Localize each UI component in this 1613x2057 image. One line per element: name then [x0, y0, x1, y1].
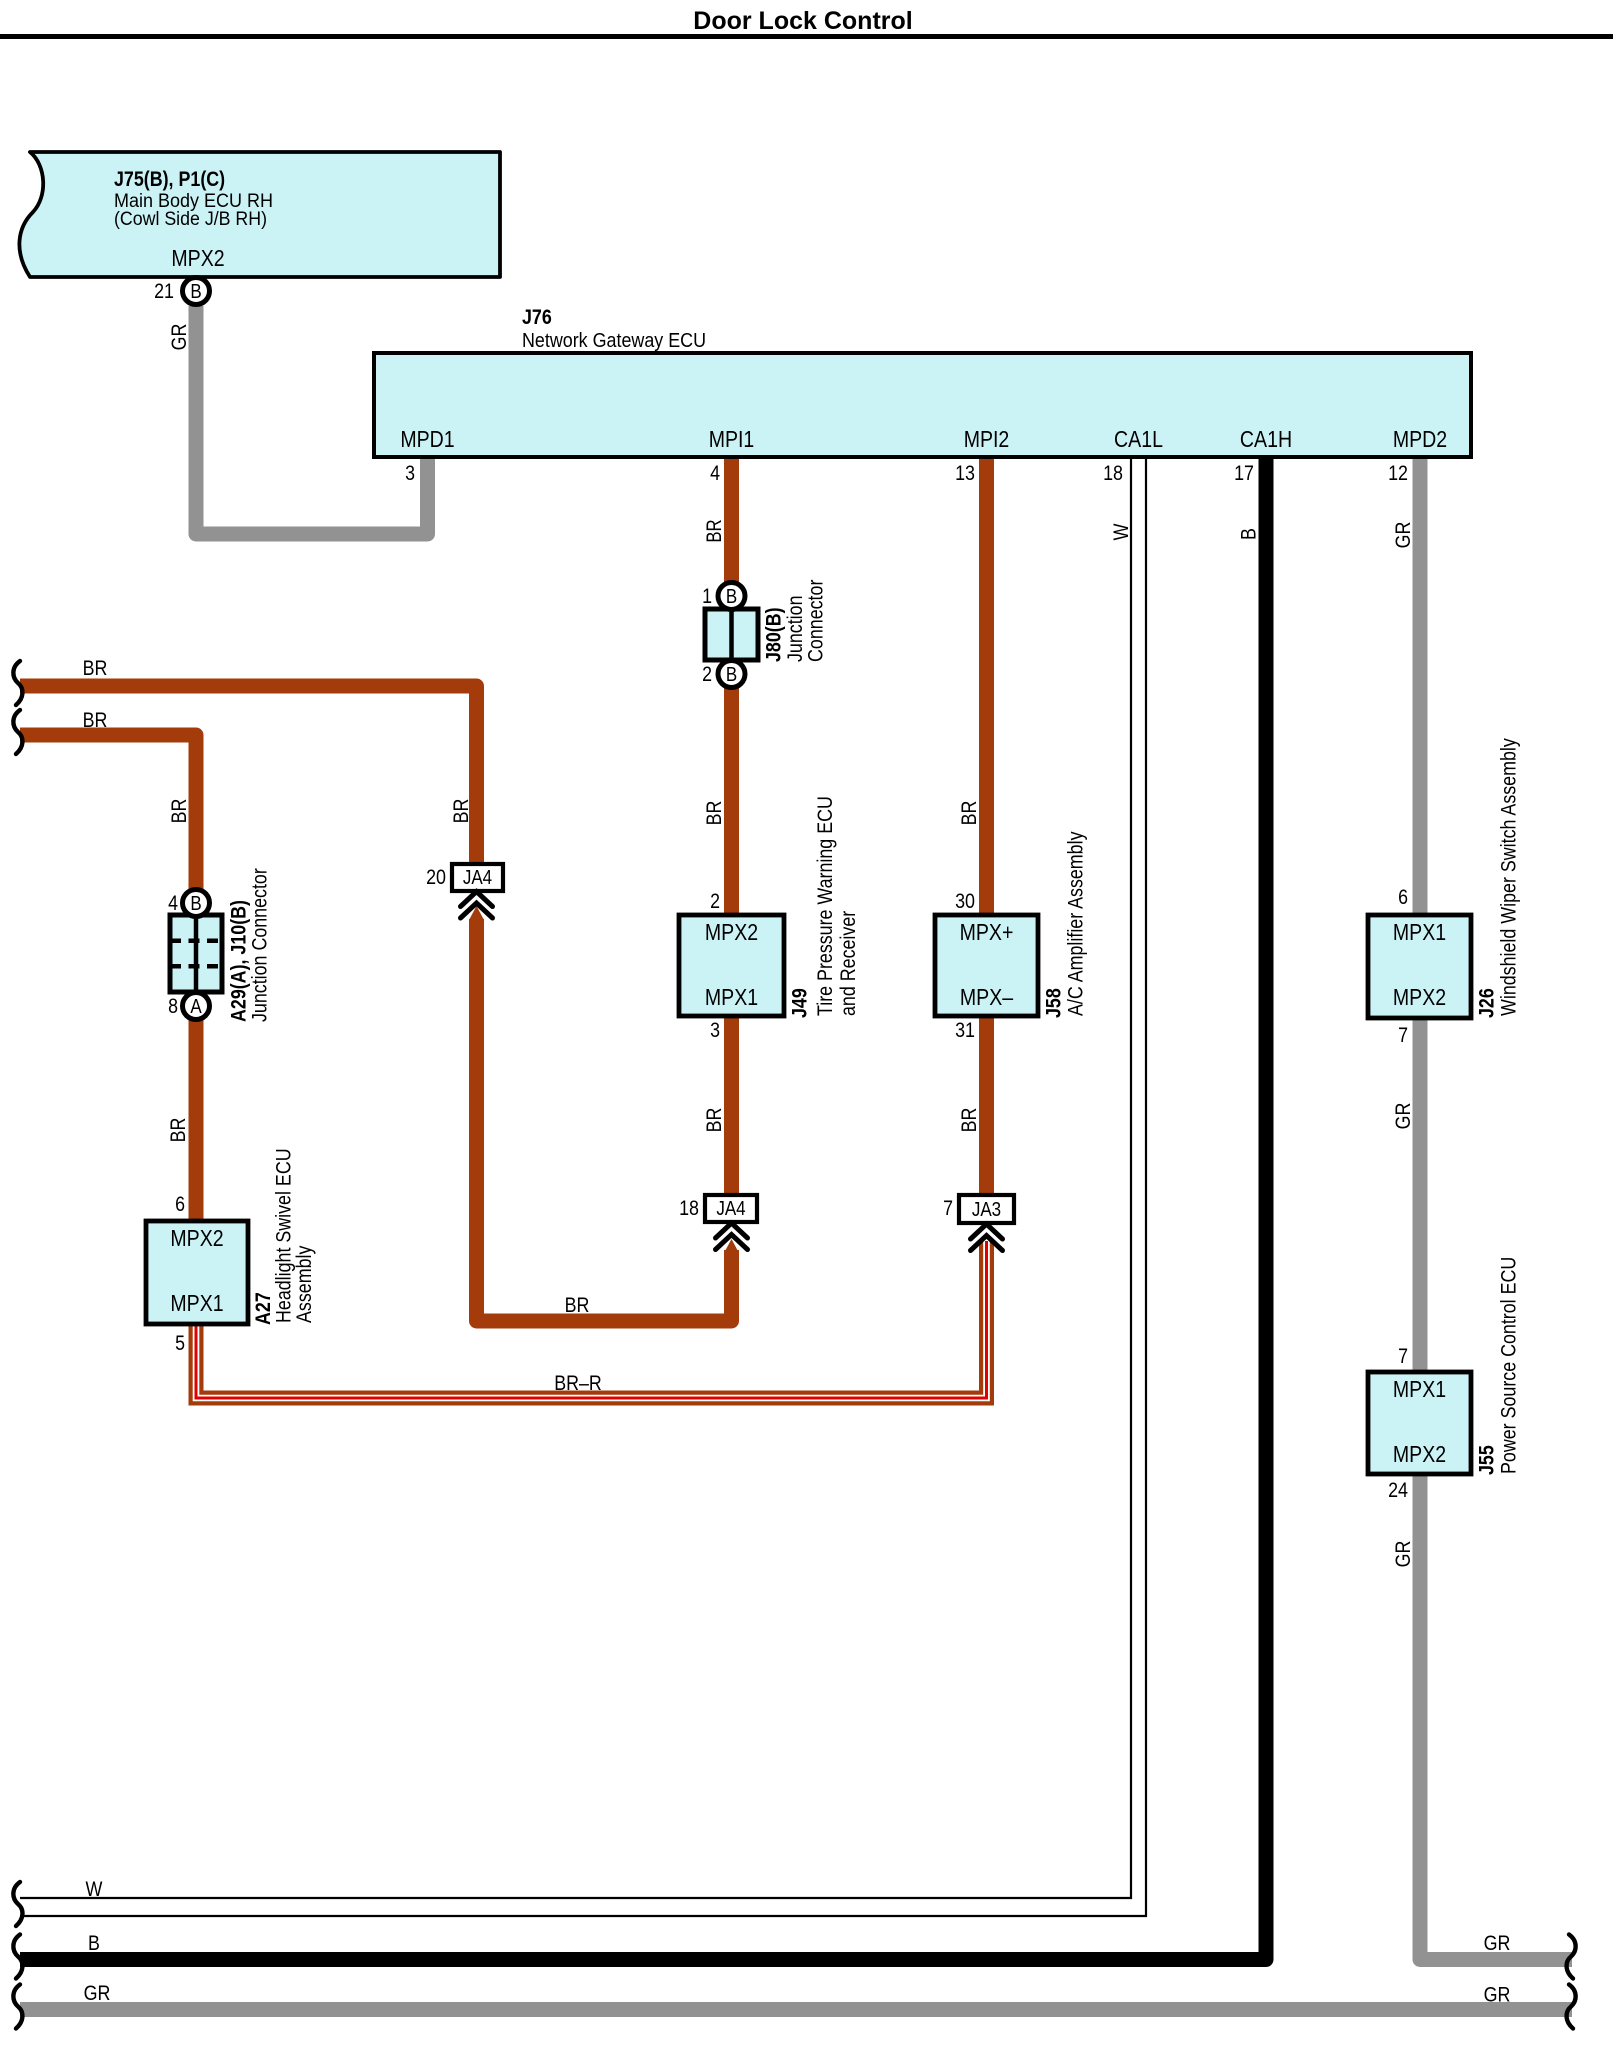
svg-text:A/C Amplifier Assembly: A/C Amplifier Assembly — [1065, 831, 1088, 1016]
connector box J76 Network Gateway ECU — [374, 353, 1471, 457]
svg-text:4: 4 — [710, 462, 720, 485]
svg-text:GR: GR — [168, 324, 191, 351]
title rule — [0, 34, 1613, 39]
wire BR loop JA4-20 down and to JA4-18 — [477, 919, 732, 1321]
svg-text:MPX2: MPX2 — [1393, 984, 1446, 1010]
svg-text:B: B — [726, 664, 737, 686]
wire W CA1L double line — [20, 454, 1131, 1898]
wire BR MPI1 J76 to J80 — [724, 454, 739, 584]
connector box J58 — [935, 915, 1038, 1016]
svg-text:BR: BR — [703, 519, 726, 542]
svg-text:MPD2: MPD2 — [1393, 426, 1447, 452]
pin circle B J80 pin 2 — [718, 661, 745, 688]
wire BR MPI2 J76 to J58 — [979, 454, 994, 917]
svg-text:31: 31 — [955, 1019, 975, 1042]
wire BR from left break to A29 — [20, 735, 196, 891]
svg-text:J58: J58 — [1043, 988, 1066, 1018]
junction connector J80(B) box — [705, 609, 758, 660]
svg-text:3: 3 — [710, 1019, 720, 1042]
svg-text:BR: BR — [565, 1294, 590, 1317]
connector JA4-18 box — [705, 1195, 757, 1222]
svg-text:GR: GR — [1392, 1541, 1415, 1568]
svg-text:2: 2 — [702, 663, 712, 686]
wire BR J58 to JA3-7 — [979, 1014, 994, 1197]
svg-text:A: A — [190, 996, 202, 1018]
connector box J49 — [679, 915, 784, 1016]
svg-text:A29(A), J10(B): A29(A), J10(B) — [228, 900, 251, 1022]
svg-text:BR: BR — [83, 657, 108, 680]
svg-text:JA3: JA3 — [972, 1199, 1001, 1221]
pin circle A A29 pin 8 — [183, 993, 210, 1020]
connector box J75(B) P1(C) Main Body ECU RH — [19, 152, 500, 277]
svg-text:BR: BR — [703, 801, 726, 826]
break symbol W wire — [13, 1882, 22, 1926]
svg-text:12: 12 — [1388, 462, 1408, 485]
svg-text:J55: J55 — [1476, 1445, 1499, 1475]
svg-text:BR: BR — [450, 799, 473, 824]
svg-text:BR: BR — [83, 709, 108, 732]
svg-text:Windshield Wiper Switch Assemb: Windshield Wiper Switch Assembly — [1498, 738, 1521, 1016]
svg-text:MPX+: MPX+ — [960, 919, 1014, 945]
wire BR tip below JA4-18 — [724, 1239, 739, 1253]
svg-text:MPX2: MPX2 — [170, 1225, 223, 1251]
svg-text:8: 8 — [168, 995, 178, 1018]
arrow chevrons below JA3-7 — [971, 1224, 1003, 1239]
pin circle B A29 pin 4 — [183, 890, 210, 917]
break symbol GR wire right upper — [1567, 1935, 1576, 1979]
svg-text:GR: GR — [84, 1982, 111, 2005]
pin circle B J80 pin 1 — [718, 583, 745, 610]
break symbol BR wire 1 — [13, 661, 22, 705]
svg-text:MPX1: MPX1 — [705, 984, 758, 1010]
wire GR J55 to right break — [1420, 1472, 1572, 1960]
svg-text:J49: J49 — [789, 988, 812, 1018]
svg-text:6: 6 — [175, 1193, 185, 1216]
svg-text:B: B — [190, 281, 201, 303]
svg-text:BR: BR — [167, 1118, 190, 1143]
svg-text:2: 2 — [710, 890, 720, 913]
connector box A27 — [146, 1221, 248, 1324]
svg-text:GR: GR — [1484, 1932, 1511, 1955]
wire BR J49 to JA4-18 — [724, 1014, 739, 1197]
svg-text:MPX1: MPX1 — [1393, 919, 1446, 945]
svg-text:24: 24 — [1388, 1479, 1408, 1502]
svg-text:MPX2: MPX2 — [171, 245, 224, 271]
svg-text:GR: GR — [1392, 522, 1415, 549]
svg-text:MPX2: MPX2 — [705, 919, 758, 945]
svg-text:Junction Connector: Junction Connector — [249, 868, 272, 1022]
svg-text:BR: BR — [958, 1108, 981, 1133]
svg-text:Network Gateway ECU: Network Gateway ECU — [522, 330, 706, 352]
svg-text:MPX1: MPX1 — [170, 1290, 223, 1316]
wire BR tip below JA4-20 — [469, 906, 484, 920]
svg-text:B: B — [190, 893, 201, 915]
arrow chevrons below JA4-18 — [716, 1223, 748, 1238]
wire GR J26 to J55 — [1413, 1016, 1428, 1374]
svg-text:BR–R: BR–R — [554, 1372, 602, 1395]
svg-text:J26: J26 — [1476, 988, 1499, 1018]
svg-text:Power Source Control ECU: Power Source Control ECU — [1498, 1257, 1521, 1474]
svg-text:Tire Pressure Warning ECU: Tire Pressure Warning ECU — [814, 796, 837, 1016]
svg-text:MPX1: MPX1 — [1393, 1376, 1446, 1402]
connector JA3-7 box — [959, 1195, 1014, 1223]
svg-text:6: 6 — [1398, 886, 1408, 909]
svg-text:20: 20 — [426, 866, 446, 889]
wire BR J80 to J49 — [724, 686, 739, 917]
svg-text:Connector: Connector — [805, 580, 828, 662]
break symbol GR wire left — [13, 1985, 22, 2029]
wire BR A29 to A27 — [189, 1018, 204, 1223]
svg-text:GR: GR — [1392, 1103, 1415, 1130]
wire BR-R A27 pin5 to JA3-7 — [196, 1241, 987, 1398]
svg-text:MPI1: MPI1 — [709, 426, 755, 452]
junction connector A29(A) J10(B) box — [170, 915, 222, 992]
svg-text:JA4: JA4 — [716, 1198, 745, 1220]
svg-text:MPX2: MPX2 — [1393, 1441, 1446, 1467]
svg-text:BR: BR — [168, 799, 191, 824]
break symbol B wire — [13, 1935, 22, 1979]
svg-text:W: W — [86, 1878, 103, 1901]
connector box J55 — [1368, 1372, 1471, 1474]
svg-text:18: 18 — [679, 1197, 699, 1220]
pin circle B on J75 pin 21 — [183, 278, 210, 305]
svg-text:MPI2: MPI2 — [964, 426, 1010, 452]
svg-text:30: 30 — [955, 890, 975, 913]
svg-text:B: B — [88, 1932, 100, 1955]
svg-text:5: 5 — [175, 1332, 185, 1355]
wire GR J75 pin21 to J76 MPD1 — [196, 306, 428, 534]
connector box J26 — [1368, 915, 1471, 1018]
svg-text:CA1H: CA1H — [1240, 426, 1292, 452]
svg-text:BR: BR — [703, 1108, 726, 1133]
wire B CA1H — [20, 454, 1266, 1960]
svg-text:18: 18 — [1103, 462, 1123, 485]
wire GR MPD2 J76 to J26 — [1413, 454, 1428, 917]
break symbol BR wire 2 — [13, 710, 22, 754]
svg-text:Door Lock Control: Door Lock Control — [693, 7, 912, 35]
svg-text:7: 7 — [1398, 1345, 1408, 1368]
wire GR bottom full width — [20, 2002, 1572, 2017]
svg-text:17: 17 — [1234, 462, 1254, 485]
svg-text:3: 3 — [405, 462, 415, 485]
svg-text:B: B — [726, 586, 737, 608]
svg-text:(Cowl Side J/B RH): (Cowl Side J/B RH) — [114, 209, 267, 230]
break symbol GR wire right lower — [1567, 1985, 1576, 2029]
svg-text:J76: J76 — [522, 306, 552, 329]
svg-text:1: 1 — [702, 585, 712, 608]
svg-text:Assembly: Assembly — [293, 1245, 316, 1323]
svg-text:BR: BR — [958, 801, 981, 826]
wire BR from left break through JA4-20 — [20, 686, 477, 866]
svg-text:7: 7 — [1398, 1024, 1408, 1047]
svg-text:4: 4 — [168, 892, 178, 915]
connector JA4-20 box — [452, 864, 503, 891]
svg-text:13: 13 — [955, 462, 975, 485]
svg-text:MPX–: MPX– — [960, 984, 1013, 1010]
svg-text:B: B — [1238, 528, 1261, 540]
svg-text:GR: GR — [1484, 1984, 1511, 2007]
svg-text:J75(B), P1(C): J75(B), P1(C) — [114, 168, 225, 191]
svg-text:J80(B): J80(B) — [763, 607, 786, 662]
svg-text:21: 21 — [154, 280, 174, 303]
svg-text:JA4: JA4 — [463, 867, 492, 889]
svg-text:and Receiver: and Receiver — [837, 911, 860, 1016]
svg-text:MPD1: MPD1 — [400, 426, 454, 452]
svg-text:CA1L: CA1L — [1114, 426, 1163, 452]
arrow chevrons below JA4-20 — [461, 892, 493, 907]
svg-text:7: 7 — [943, 1197, 953, 1220]
svg-text:W: W — [1110, 523, 1133, 540]
